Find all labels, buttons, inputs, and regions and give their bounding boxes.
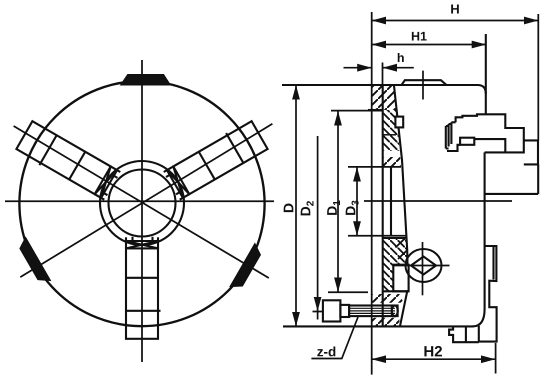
dim h right arrow <box>383 67 414 69</box>
rear stud bracket left <box>446 122 452 148</box>
rear spigot profile <box>479 246 497 342</box>
dim D1 bottom extension <box>328 291 368 293</box>
scroll hatch block <box>382 238 408 291</box>
body back edge upper <box>485 34 487 114</box>
chuck body circle <box>19 81 264 326</box>
dim D line <box>295 85 297 326</box>
dim D3 top extension <box>348 166 401 168</box>
jaw slant edge <box>394 86 408 265</box>
jaw step edge <box>382 86 384 326</box>
label D <box>284 204 294 213</box>
bottom foot divider <box>465 326 467 342</box>
body top face <box>282 85 486 94</box>
dim D1 line <box>337 111 339 292</box>
body bottom face <box>283 325 474 327</box>
label D1 <box>327 200 340 214</box>
bolt head <box>323 300 341 321</box>
bolt thread end tick <box>391 306 393 317</box>
back frame right vertical <box>537 164 539 194</box>
hatch band above bolt <box>372 294 404 303</box>
bolt thread lines <box>349 307 395 309</box>
bolt thread end arc <box>392 306 398 317</box>
pinion pocket <box>393 265 408 292</box>
label h <box>398 53 404 62</box>
hub outer circle <box>100 161 184 245</box>
vertical center line <box>141 60 143 362</box>
dim H right extension <box>537 14 539 140</box>
dim D3 line <box>356 167 358 236</box>
jaw slot step line <box>368 109 383 111</box>
dim D2 line <box>317 136 319 311</box>
black wedge top <box>121 75 170 85</box>
dim D2 bottom extension <box>313 311 323 313</box>
lip center mark vertical <box>422 71 424 100</box>
jaw step boundary line <box>383 134 396 136</box>
diagonal center line 150-330 <box>14 126 269 278</box>
label D3 <box>346 201 359 215</box>
rear stud inner rect <box>460 138 474 145</box>
jaw section hatch top band <box>372 86 396 110</box>
dim D1 top extension <box>331 110 383 112</box>
bolt thread shank <box>349 306 398 317</box>
chuck face line <box>371 12 373 375</box>
jaw section hatch lower band <box>383 157 401 167</box>
label D2 <box>301 201 314 215</box>
body back edge lower <box>473 152 485 326</box>
label H2 <box>424 346 442 356</box>
horizontal center line <box>5 200 274 202</box>
dim D3 bottom extension <box>348 235 406 237</box>
black wedge lower-left <box>17 238 50 285</box>
rear stud body <box>456 114 524 152</box>
bolt neck <box>340 305 349 317</box>
diagonal center line 30-210 <box>20 124 272 277</box>
z-d leader line <box>311 317 358 359</box>
label H <box>451 5 459 14</box>
jaw slot groove white notch <box>395 117 403 128</box>
dim H1 line <box>372 44 487 46</box>
scroll block top edge <box>382 237 407 239</box>
section center line <box>364 200 512 202</box>
scroll block cross ticks <box>396 238 408 259</box>
dim H2 line <box>372 358 496 360</box>
dim H2 right extension <box>495 343 497 374</box>
rear stud left cap <box>451 121 455 123</box>
jaw slot inner line <box>390 167 392 236</box>
jaw section hatch tongue band <box>383 110 400 151</box>
dim H line <box>372 20 539 22</box>
rear spigot inner line <box>492 246 494 280</box>
pinion square socket <box>411 257 436 275</box>
slot wall lower <box>400 290 407 326</box>
jaw 1 (bottom) <box>126 237 161 339</box>
dim h right extension <box>382 63 384 85</box>
pinion center v line <box>422 242 424 295</box>
pocket bottom line <box>382 290 408 292</box>
rear nut rect <box>524 140 538 164</box>
jaw 3 (upper left) <box>162 119 268 200</box>
rear stud bottom step <box>447 145 505 153</box>
hub inner circle <box>109 170 176 237</box>
pinion center h line <box>394 265 450 267</box>
black wedge lower-right <box>230 244 263 291</box>
bottom foot outline <box>449 326 479 343</box>
back frame bottom <box>484 193 538 195</box>
label H1 <box>412 32 427 41</box>
face lip trapezoid <box>402 80 447 85</box>
pinion circle <box>406 249 442 282</box>
label z-d <box>317 347 335 357</box>
hatch band below bolt <box>372 318 400 326</box>
jaw 2 (upper right) <box>15 121 121 202</box>
dim h left arrow <box>344 67 372 69</box>
